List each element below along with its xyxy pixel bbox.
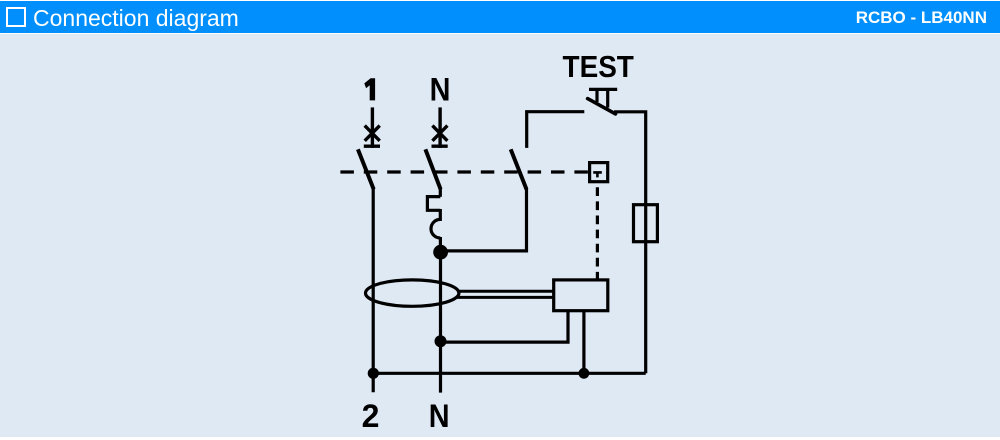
header bar — [0, 1, 1000, 33]
switch blade RCD — [511, 149, 527, 189]
terminal marker bar pole 1 — [364, 144, 380, 147]
junction node N mid — [433, 245, 448, 260]
test button cap — [589, 88, 617, 91]
wire pole N upper — [439, 189, 442, 197]
switch blade pole 1 — [358, 149, 374, 189]
terminal marker X pole N — [432, 126, 447, 141]
relay box U1 — [554, 280, 608, 311]
header title — [33, 5, 239, 32]
svg-text:2: 2 — [362, 398, 380, 434]
junction node N lower — [435, 335, 447, 347]
trip coil T mark — [593, 172, 602, 177]
header square icon — [6, 7, 26, 27]
thermal release notch — [427, 197, 440, 211]
test button blade — [588, 99, 616, 114]
svg-text:N: N — [429, 399, 450, 435]
wire terminal N stub — [438, 107, 441, 147]
junction node bus center — [579, 368, 590, 379]
wire node N mid to RCD switch — [441, 189, 527, 251]
svg-text:TEST: TEST — [563, 49, 634, 84]
magnetic release half-circle — [431, 219, 440, 238]
test button leg right — [606, 90, 609, 108]
wire pole N lower vertical — [439, 252, 442, 393]
wire terminal 1 stub — [371, 107, 374, 147]
wire relay to N node — [441, 310, 569, 342]
mechanical linkage dashed horizontal — [340, 170, 588, 173]
junction node pole 1 bottom — [368, 368, 379, 379]
wire notch to coil — [439, 209, 442, 221]
wire RCD switch stub to test circuit left — [527, 112, 585, 148]
header reference RCBO - LB40NN — [856, 8, 987, 28]
wire bottom bus — [373, 372, 645, 375]
current transformer ellipse — [366, 280, 459, 306]
switch blade pole N — [425, 149, 440, 189]
label terminal 1 — [364, 78, 375, 100]
test button leg left — [595, 90, 598, 102]
terminal marker bar pole N — [432, 144, 448, 147]
wire coil to node — [439, 237, 442, 247]
mechanical linkage dashed vertical — [596, 187, 599, 280]
wire relay to bottom bus — [582, 310, 585, 373]
wire pole 1 vertical — [372, 189, 375, 393]
svg-text:N: N — [430, 72, 451, 108]
terminal marker X pole 1 — [365, 126, 380, 141]
CT secondary wire lower — [457, 296, 553, 299]
resistor R test — [634, 205, 658, 242]
wire test circuit right and resistor branch — [614, 112, 646, 374]
trip coil T square — [590, 163, 608, 182]
CT secondary wire upper — [457, 290, 553, 293]
